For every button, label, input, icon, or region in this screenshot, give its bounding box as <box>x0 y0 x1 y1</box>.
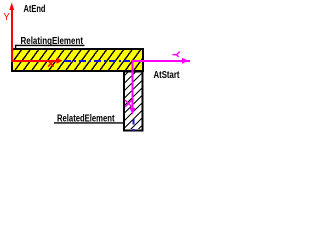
relating element bar (yellow) <box>12 49 143 71</box>
svg-text:Y: Y <box>3 12 10 23</box>
magenta y axis of related element (down) <box>132 60 134 110</box>
column hatch lines <box>118 68 147 135</box>
red Y axis <box>11 9 13 62</box>
svg-text:AtStart: AtStart <box>154 69 180 81</box>
underline + leader to column <box>54 122 124 124</box>
magenta y label glyph (x-shaped) <box>125 100 132 107</box>
svg-text:AtEnd: AtEnd <box>24 3 46 15</box>
magenta x axis of related element <box>132 60 191 62</box>
red X axis <box>11 60 58 62</box>
blue centerline (horizontal, in bar) <box>64 60 130 62</box>
underline + leader <box>15 44 85 46</box>
magenta x label glyph <box>172 52 179 57</box>
x axis label (red) <box>48 61 54 67</box>
blue centerline (vertical, in column) <box>133 119 135 131</box>
related element column (hatched) <box>124 72 143 131</box>
bar hatch lines <box>0 49 150 72</box>
